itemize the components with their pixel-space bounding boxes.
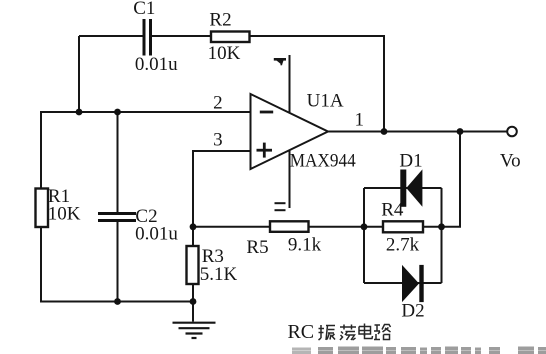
svg-text:Vo: Vo xyxy=(500,151,521,172)
svg-text:2: 2 xyxy=(213,93,223,114)
svg-text:MAX944: MAX944 xyxy=(290,151,356,172)
svg-text:U1A: U1A xyxy=(307,91,344,112)
svg-text:3: 3 xyxy=(213,129,223,150)
svg-text:C1: C1 xyxy=(133,0,155,19)
svg-text:R4: R4 xyxy=(381,200,404,221)
svg-text:RC: RC xyxy=(287,321,314,343)
svg-text:R5: R5 xyxy=(246,237,268,258)
svg-text:D1: D1 xyxy=(399,150,422,171)
svg-text:1: 1 xyxy=(355,110,365,131)
svg-text:R2: R2 xyxy=(209,10,231,31)
svg-text:10K: 10K xyxy=(48,203,81,224)
svg-text:2.7k: 2.7k xyxy=(386,235,420,256)
svg-text:10K: 10K xyxy=(208,43,241,64)
svg-text:9.1k: 9.1k xyxy=(288,235,322,256)
svg-text:5.1K: 5.1K xyxy=(200,264,238,285)
svg-text:0.01u: 0.01u xyxy=(135,54,178,75)
svg-text:0.01u: 0.01u xyxy=(135,224,178,245)
svg-text:D2: D2 xyxy=(401,300,424,321)
